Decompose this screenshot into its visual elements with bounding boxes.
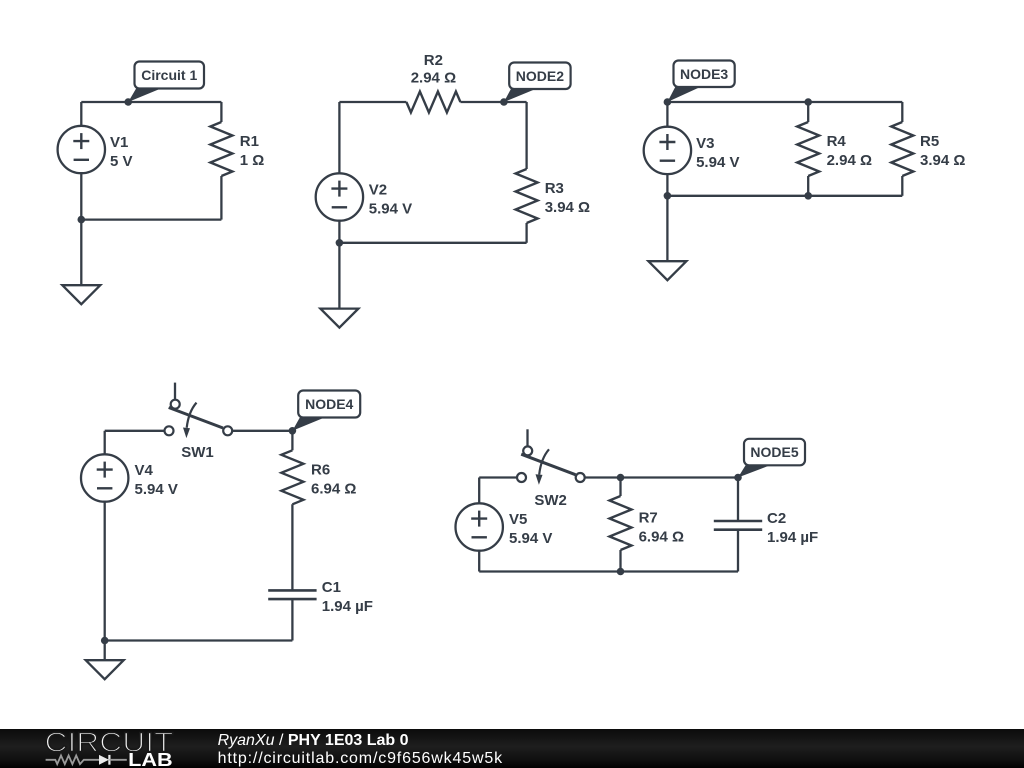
svg-text:SW2: SW2: [534, 492, 567, 509]
junction circuit3 bottom-left: [664, 192, 672, 200]
node NODE4 label: [289, 391, 361, 435]
switch left terminal: [517, 473, 526, 482]
node NODE2 label: [500, 63, 571, 106]
svg-text:2.94 Ω: 2.94 Ω: [827, 152, 872, 169]
wire switch throw stub: [526, 429, 528, 446]
logo CIRCUIT text: [45, 727, 174, 758]
wire circuit5 left upper: [478, 478, 480, 504]
junction R7 top: [617, 474, 625, 482]
wire V5 bottom lead: [478, 550, 480, 571]
logo resistor glyph: [46, 756, 99, 765]
svg-text:3.94 Ω: 3.94 Ω: [920, 152, 965, 169]
svg-text:5 V: 5 V: [110, 153, 133, 170]
svg-text:NODE3: NODE3: [680, 66, 728, 82]
svg-text:LAB: LAB: [128, 750, 173, 768]
wire circuit3 left upper: [666, 102, 668, 127]
ground circuit1: [62, 220, 100, 305]
svg-text:1 Ω: 1 Ω: [240, 152, 265, 169]
svg-text:R1: R1: [240, 133, 259, 150]
wire circuit5 top-right: [585, 476, 738, 478]
wire C2 bottom lead: [737, 530, 739, 572]
wire R5 bottom lead: [901, 176, 903, 196]
svg-text:5.94 V: 5.94 V: [509, 530, 552, 547]
junction R7 bottom: [617, 568, 625, 576]
switch left terminal: [165, 426, 174, 435]
wire circuit3 top: [667, 101, 902, 103]
value label V3: [696, 135, 739, 171]
svg-text:V4: V4: [135, 462, 154, 479]
wire circuit2 top-left: [339, 101, 406, 103]
node NODE3 label: [664, 61, 735, 106]
svg-text:2.94 Ω: 2.94 Ω: [411, 70, 456, 87]
wire C1 bottom lead: [291, 599, 293, 640]
value label R4: [827, 133, 872, 169]
svg-text:6.94 Ω: 6.94 Ω: [639, 529, 684, 546]
junction R4 top: [804, 98, 812, 106]
value label R7: [639, 510, 684, 546]
value label V5: [509, 511, 552, 547]
svg-text:Circuit 1: Circuit 1: [141, 67, 197, 83]
wire circuit4 top-right: [232, 430, 292, 432]
value label R6: [311, 461, 356, 497]
switch SW2: [517, 429, 585, 485]
switch SW1: [165, 383, 233, 439]
wire circuit4 top-left: [105, 430, 165, 432]
svg-text:NODE4: NODE4: [305, 396, 353, 412]
junction R4 bottom: [804, 192, 812, 200]
value label R3: [545, 180, 590, 216]
wire circuit4 bottom: [105, 639, 293, 641]
wire R6 to C1: [291, 504, 293, 590]
wire R4 bottom lead: [807, 176, 809, 196]
value label C1: [322, 579, 373, 615]
switch throw terminal: [171, 400, 180, 409]
switch right terminal: [223, 426, 232, 435]
ground circuit3: [648, 196, 686, 280]
capacitor C2: [714, 521, 762, 530]
wire circuit5 top-left: [479, 476, 517, 478]
wire V1 bottom lead: [80, 173, 82, 220]
svg-text:C1: C1: [322, 579, 341, 596]
junction circuit1 bottom-left: [78, 216, 86, 224]
ground circuit2: [320, 243, 358, 328]
svg-text:V5: V5: [509, 511, 527, 528]
switch right terminal: [576, 473, 585, 482]
svg-text:5.94 V: 5.94 V: [135, 481, 178, 498]
wire circuit4 left lower: [104, 501, 106, 640]
switch actuation arrow: [539, 449, 549, 474]
wire C2 top lead: [737, 478, 739, 522]
voltage source V3: [644, 127, 691, 174]
node NODE5 label: [734, 439, 805, 482]
voltage source V1: [58, 126, 105, 173]
value label R2: [411, 52, 456, 87]
wire R7 bottom lead: [619, 550, 621, 572]
junction circuit4 bottom-left: [101, 637, 109, 645]
wire circuit4 left upper: [104, 431, 106, 455]
svg-text:V2: V2: [369, 182, 387, 199]
capacitor C1: [268, 590, 316, 599]
wire circuit2 right upper: [525, 102, 527, 169]
switch actuation arrow: [187, 403, 197, 428]
wire circuit1 top: [81, 101, 221, 103]
svg-text:http://circuitlab.com/c9f656wk: http://circuitlab.com/c9f656wk45w5k: [218, 750, 504, 767]
footer title line: [218, 732, 409, 749]
wire circuit5 bottom: [479, 570, 738, 572]
wire circuit1 right upper: [220, 102, 222, 122]
svg-text:SW1: SW1: [181, 444, 214, 461]
svg-text:V1: V1: [110, 134, 128, 151]
svg-text:3.94 Ω: 3.94 Ω: [545, 199, 590, 216]
svg-text:R6: R6: [311, 461, 330, 478]
wire R5 top lead: [901, 102, 903, 122]
value label V1: [110, 134, 133, 170]
resistor R2: [406, 92, 460, 113]
svg-text:C2: C2: [767, 510, 786, 527]
resistor R3: [516, 169, 538, 223]
svg-text:1.94 µF: 1.94 µF: [767, 529, 818, 546]
voltage source V5: [456, 503, 503, 550]
svg-text:5.94 V: 5.94 V: [369, 201, 412, 218]
logo LAB text: [128, 750, 173, 768]
value label SW2: [534, 492, 567, 509]
footer url line: [218, 750, 504, 767]
switch blade: [169, 408, 223, 429]
value label R1: [240, 133, 265, 169]
svg-text:R4: R4: [827, 133, 847, 150]
wire circuit2 right lower: [525, 223, 527, 243]
svg-text:R3: R3: [545, 180, 564, 197]
svg-text:R5: R5: [920, 133, 939, 150]
wire circuit2 left upper: [338, 102, 340, 174]
logo diode glyph: [99, 755, 127, 765]
switch blade: [521, 454, 575, 475]
wire circuit1 left upper: [80, 102, 82, 126]
wire V2 bottom lead: [338, 220, 340, 242]
value label V2: [369, 182, 412, 218]
resistor R1: [210, 122, 232, 176]
svg-text:NODE2: NODE2: [516, 68, 564, 84]
wire circuit2 top-right: [460, 101, 526, 103]
wire circuit2 bottom: [339, 242, 526, 244]
junction circuit2 bottom-left: [336, 239, 344, 247]
value label C2: [767, 510, 818, 546]
svg-text:RyanXu / PHY 1E03 Lab 0: RyanXu / PHY 1E03 Lab 0: [218, 732, 409, 749]
svg-text:R7: R7: [639, 510, 658, 527]
wire R7 top lead: [619, 478, 621, 497]
voltage source V2: [316, 173, 363, 220]
ground circuit4: [86, 641, 124, 680]
wire circuit1 right lower: [220, 176, 222, 220]
node Circuit 1 label: [124, 62, 204, 106]
voltage source V4: [81, 454, 128, 501]
wire R4 top lead: [807, 102, 809, 122]
resistor R6: [281, 450, 303, 504]
svg-text:6.94 Ω: 6.94 Ω: [311, 480, 356, 497]
value label V4: [135, 462, 178, 498]
wire circuit1 bottom: [81, 218, 221, 220]
value label R5: [920, 133, 965, 169]
svg-text:1.94 µF: 1.94 µF: [322, 598, 373, 615]
wire circuit3 bottom: [667, 195, 902, 197]
svg-text:5.94 V: 5.94 V: [696, 154, 739, 171]
switch throw terminal: [523, 446, 532, 455]
wire R6 top lead: [291, 431, 293, 451]
svg-text:V3: V3: [696, 135, 714, 152]
resistor R7: [610, 496, 632, 550]
resistor R5: [891, 122, 913, 176]
wire switch throw stub: [174, 383, 176, 400]
footer bar: [0, 729, 1024, 768]
svg-text:R2: R2: [424, 52, 443, 69]
resistor R4: [797, 122, 819, 176]
svg-text:NODE5: NODE5: [750, 444, 798, 460]
wire V3 bottom lead: [666, 174, 668, 196]
value label SW1: [181, 444, 214, 461]
